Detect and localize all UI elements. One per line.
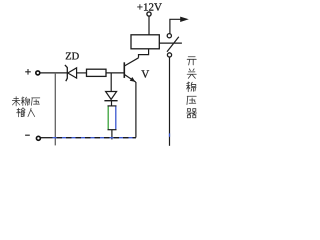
node + input [25,69,31,75]
diode VD triangle [106,92,117,100]
transistor V label [141,70,149,77]
wire + to zener [40,72,67,74]
resistor R2 vertical (green/blue edges) [108,106,117,130]
wire resistor to base [106,72,124,74]
terminal + [36,71,40,75]
zener ZD label [66,53,79,60]
wire switch output with arrow [170,19,181,33]
node +12V label [137,3,161,10]
label 开关稳压器 (vertical) [187,57,197,118]
wire switch bottom down [169,57,171,146]
divider line left [54,73,56,145]
transistor V emitter [125,75,136,83]
wire zener to resistor [77,72,87,74]
wire junction branch down [110,73,112,92]
contact top circle [167,34,171,38]
terminal - [36,136,40,140]
wire +12V to relay coil [148,16,150,34]
wire relay coil to collector (step) [139,49,149,58]
contact bottom circle [167,53,171,57]
terminal +12V [147,12,151,16]
transistor V collector [125,58,139,66]
arrowhead output [180,17,189,22]
label 未稳压 [12,97,40,117]
rail bottom (dash black/blue) [41,137,136,139]
relay coil K [131,35,159,49]
zener ZD cathode bar [65,65,67,81]
node - input [25,134,30,136]
resistor R1 horizontal [87,69,107,76]
wire relay to contact blade (linkage) [159,42,182,44]
wire resistor R2 to rail [111,130,113,140]
transistor V base bar [123,62,125,78]
wire emitter down to rail [135,82,137,138]
blue dash on switch wire [169,133,171,136]
contact blade [167,37,179,52]
transistor V emitter arrow [130,77,136,82]
zener ZD triangle [68,68,77,78]
wire diode to resistor R2 [111,101,113,106]
diode VD cathode bar [104,100,117,102]
